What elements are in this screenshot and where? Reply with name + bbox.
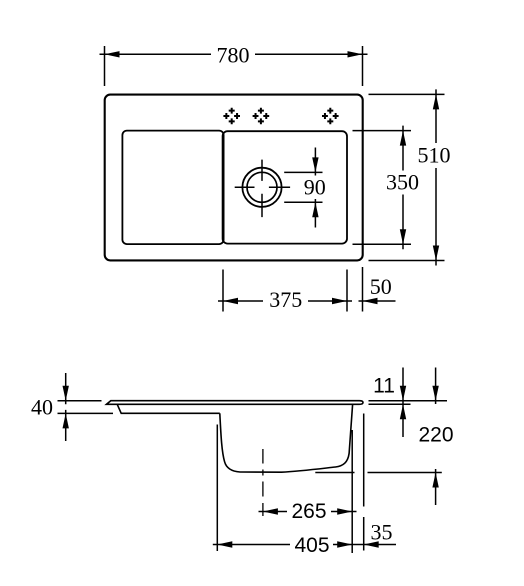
svg-text:50: 50 — [370, 274, 392, 299]
svg-text:265: 265 — [291, 500, 326, 523]
svg-text:11: 11 — [373, 374, 395, 397]
svg-text:350: 350 — [386, 170, 419, 195]
svg-text:510: 510 — [418, 143, 451, 168]
svg-text:780: 780 — [217, 43, 250, 68]
svg-text:375: 375 — [269, 287, 302, 312]
svg-text:40: 40 — [31, 395, 53, 420]
svg-text:90: 90 — [304, 175, 326, 200]
svg-text:405: 405 — [294, 534, 329, 557]
svg-text:35: 35 — [371, 520, 393, 545]
svg-text:220: 220 — [418, 424, 453, 447]
